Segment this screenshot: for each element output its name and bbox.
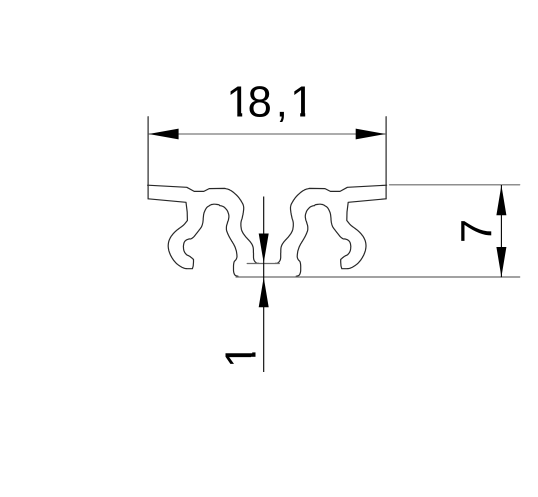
dimension 1 <box>217 197 268 373</box>
dim line 1 (vertical through centre) <box>263 197 265 373</box>
profile outline group (left half) <box>148 117 520 277</box>
dim line 7 <box>500 185 502 277</box>
svg-text:7: 7 <box>454 219 502 243</box>
arrow right of 18,1 <box>356 129 386 140</box>
dimension 7 <box>454 185 507 277</box>
dim 7 top extension line <box>390 184 520 186</box>
right half = mirror of left about x=266.5 <box>275 117 386 277</box>
arrow down of 7 <box>496 247 506 277</box>
notch floor line (1mm web top) <box>247 263 279 265</box>
wire left extension + profile left edge <box>147 117 149 199</box>
profile flange underside + claw + mushroom dome + foot <box>148 199 238 276</box>
profile top edge left + centre notch left wall <box>148 185 259 263</box>
arrow up to bottom face <box>259 277 269 307</box>
profile bottom face + right extension line <box>236 276 520 278</box>
arrow up of 7 <box>496 185 506 215</box>
dimension 18,1 <box>149 79 386 140</box>
arrow down to web top <box>259 234 269 264</box>
svg-text:18,1: 18,1 <box>226 79 314 127</box>
dim line 18,1 <box>149 133 386 135</box>
arrow left of 18,1 <box>149 129 179 140</box>
svg-text:1: 1 <box>217 344 265 368</box>
